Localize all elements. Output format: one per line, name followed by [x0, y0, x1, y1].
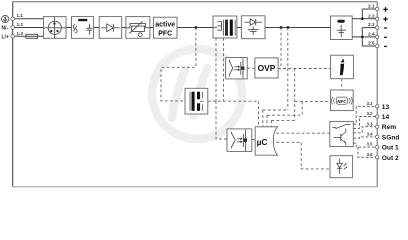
- terminal 1.3: [11, 35, 15, 39]
- svg-text:1.3: 1.3: [17, 31, 24, 36]
- svg-text:NFC: NFC: [337, 99, 347, 104]
- svg-text:3.6: 3.6: [367, 152, 373, 157]
- microcontroller uC: [255, 127, 277, 155]
- dashed wire: node J2 down: [280, 28, 282, 69]
- dashed wire: NFC feed: [295, 100, 331, 102]
- terminal 1.1: [11, 17, 15, 21]
- dashed wire: OVP to DC-OK block: [278, 68, 331, 70]
- terminal 14: [376, 115, 379, 118]
- svg-text:3.2: 3.2: [367, 111, 373, 116]
- svg-text:OVP: OVP: [258, 63, 276, 73]
- rectifier diode block: [99, 17, 122, 39]
- terminal 2.5: [376, 44, 379, 47]
- node J5: [361, 36, 364, 39]
- surge arrester block (gas discharge tube): [43, 17, 66, 39]
- inrush limiter block (NTC varistor): [126, 17, 150, 39]
- dashed wire: uC to signal block: [276, 132, 330, 134]
- svg-text:2.3: 2.3: [368, 22, 375, 27]
- fuse F1: [26, 34, 38, 38]
- uC pin2: [262, 110, 264, 127]
- svg-text:µC: µC: [257, 137, 268, 147]
- output bus + wire: [352, 9, 375, 46]
- terminal 13: [376, 105, 379, 108]
- signal wire 3.2: [353, 117, 375, 129]
- output rectifier block: [241, 16, 265, 39]
- terminal 1.2: [11, 26, 15, 30]
- bottom border: [13, 186, 378, 188]
- wire A-B: [66, 27, 72, 29]
- dashed wire: to optocoupler 2: [216, 101, 227, 139]
- terminal SGnd: [376, 135, 379, 138]
- svg-text:3.5: 3.5: [367, 142, 373, 147]
- active PFC block: [153, 17, 177, 38]
- uC pin1: [258, 101, 260, 127]
- signal wire 3.6: [358, 147, 376, 157]
- wire 1.3: [13, 35, 44, 37]
- svg-text:SGnd: SGnd: [382, 134, 400, 141]
- signal wire 3.1: [353, 106, 375, 124]
- svg-text:2.1: 2.1: [368, 4, 375, 9]
- dashed wire: node J3 down to H1: [287, 28, 289, 111]
- svg-text:Rem: Rem: [382, 124, 396, 131]
- wire 1.2: [13, 27, 44, 29]
- dashed bus H1: [263, 109, 288, 111]
- terminal 2.2: [376, 17, 379, 20]
- svg-text:2.2: 2.2: [368, 13, 375, 18]
- terminal Rem: [376, 125, 379, 128]
- dashed bus H3: [271, 119, 294, 121]
- transformer secondary dashed stub 1: [215, 38, 217, 101]
- svg-text:Out 2: Out 2: [382, 155, 399, 162]
- svg-text:2.4: 2.4: [368, 32, 375, 37]
- uC pin3: [266, 115, 268, 127]
- transformer secondary dashed stub 2: [223, 38, 225, 101]
- transformer T1: [213, 16, 237, 38]
- dashed wire: drop to H2: [301, 101, 303, 115]
- svg-text:PFC: PFC: [158, 30, 172, 37]
- signal wire 3.5: [353, 143, 375, 147]
- wire C-D: [122, 27, 126, 29]
- dashed bus H2: [267, 114, 302, 116]
- LED indicator block: [330, 156, 353, 178]
- PWM transformer block J: [185, 88, 208, 114]
- node J3: [286, 26, 289, 29]
- svg-text:N/-: N/-: [2, 26, 9, 32]
- wire D-E: [150, 27, 154, 29]
- dashed link U2-OVP: [247, 67, 255, 69]
- dashed wire: drop through NFC feed to H3: [294, 69, 296, 121]
- svg-text:14: 14: [382, 114, 390, 121]
- terminal Out 1: [376, 145, 379, 148]
- DC OK block: [331, 55, 354, 78]
- optocoupler U3: [227, 129, 252, 152]
- input terminal rail (left): [12, 2, 14, 187]
- signal wire 3.4: [353, 137, 375, 138]
- optocoupler U2: [226, 58, 248, 79]
- dashed wire: uC to LED block: [276, 142, 330, 169]
- NFC block: [330, 90, 353, 111]
- output terminal rail (right): [376, 2, 378, 187]
- svg-text:13: 13: [382, 104, 390, 111]
- wire G-H: [265, 27, 331, 29]
- dashed wire: block J to uC pin1: [208, 100, 259, 102]
- wire F-G: [237, 27, 242, 29]
- wire 1.1: [13, 18, 44, 20]
- OVP block: [255, 58, 278, 78]
- signal wire 3.3: [353, 127, 375, 133]
- node J2: [280, 26, 283, 29]
- dashed link DC OK - NFC: [341, 79, 343, 90]
- svg-text:active: active: [155, 21, 175, 28]
- svg-text:3.4: 3.4: [367, 132, 373, 137]
- svg-text:1.1: 1.1: [17, 13, 24, 18]
- polarity marks: [383, 7, 387, 46]
- svg-text:3.1: 3.1: [367, 101, 373, 106]
- svg-text:2.5: 2.5: [368, 41, 375, 46]
- output filter block: [331, 16, 353, 40]
- terminal 2.1: [376, 7, 379, 10]
- watermark: [152, 49, 242, 139]
- uC pin4: [270, 120, 272, 127]
- terminal 2.4: [376, 35, 379, 38]
- svg-text:Out 1: Out 1: [382, 145, 399, 152]
- dashed link U3-uC: [252, 139, 255, 141]
- EMI filter block: [72, 17, 94, 39]
- svg-text:L/+: L/+: [2, 34, 9, 40]
- node J1: [195, 26, 198, 29]
- svg-text:3.3: 3.3: [367, 121, 373, 126]
- enclosure top border: [13, 1, 378, 3]
- node J4: [361, 17, 364, 20]
- terminal 2.3: [376, 26, 379, 29]
- signal relay/transistor block: [330, 121, 354, 146]
- terminal Out 2: [376, 156, 379, 159]
- wire B-C: [94, 27, 100, 29]
- wire E-F: [177, 27, 213, 29]
- PE earth symbol: [2, 15, 9, 22]
- svg-text:1.2: 1.2: [17, 22, 24, 27]
- dashed net: node J1 down: [161, 28, 196, 101]
